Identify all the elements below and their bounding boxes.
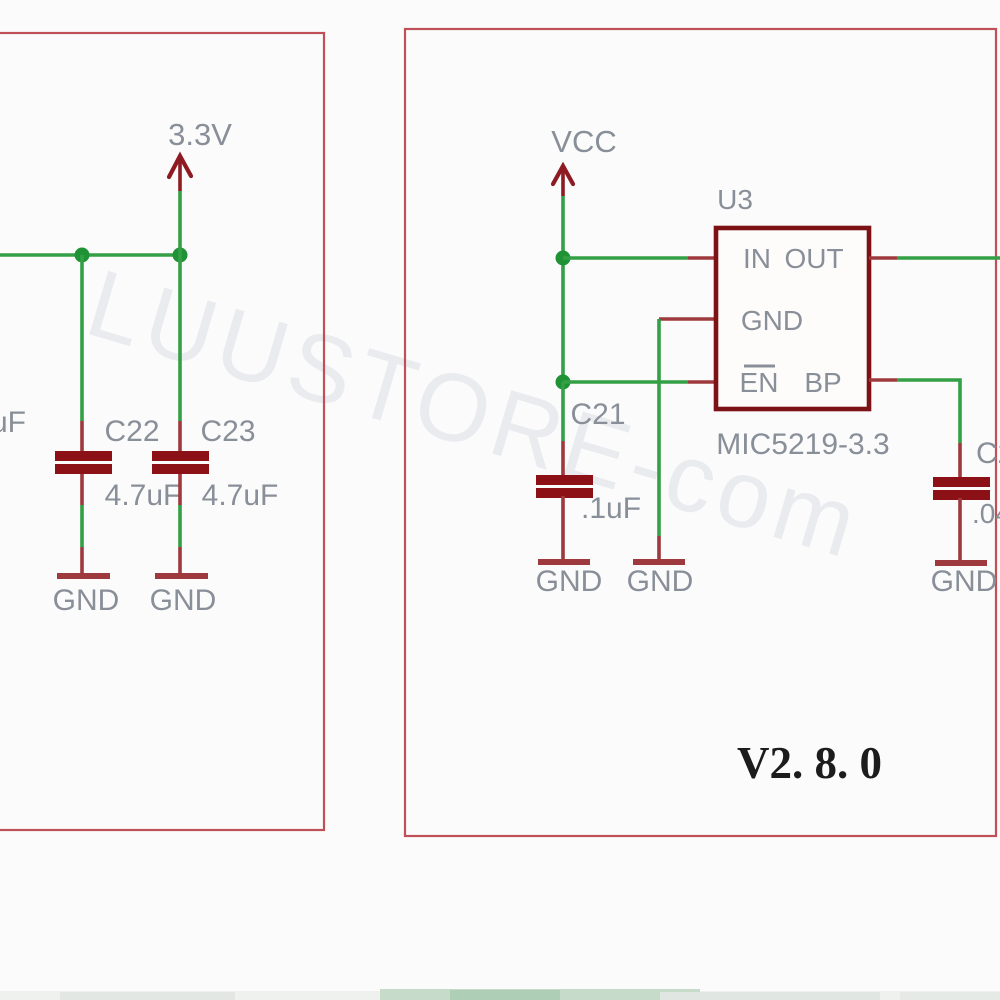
wire OUT pin <box>869 256 1000 260</box>
svg-text:OUT: OUT <box>784 243 843 274</box>
svg-text:VCC: VCC <box>551 124 616 159</box>
svg-text:GND: GND <box>53 584 120 617</box>
svg-text:C21: C21 <box>570 398 625 431</box>
value label uF fragment at left edge <box>0 406 26 439</box>
svg-text:V2. 8. 0: V2. 8. 0 <box>737 737 882 788</box>
wire IN pin <box>563 256 716 260</box>
svg-text:GND: GND <box>931 565 998 598</box>
node junction at IN <box>556 251 571 266</box>
node junction at EN <box>556 375 571 390</box>
capacitor C23 <box>152 255 278 573</box>
capacitor C22 <box>55 255 181 573</box>
power symbol VCC <box>551 124 616 196</box>
op-amp U3 regulator MIC5219 <box>716 184 890 461</box>
svg-text:GND: GND <box>150 584 217 617</box>
svg-text:GND: GND <box>536 565 603 598</box>
ground GND of U3 <box>627 559 694 598</box>
svg-text:GND: GND <box>627 565 694 598</box>
node junction at C22 <box>75 248 90 263</box>
version label V2.8.0 <box>737 737 882 788</box>
wire BP pin <box>869 380 960 443</box>
ground GND under C21 <box>536 559 603 598</box>
svg-text:4.7uF: 4.7uF <box>202 479 279 512</box>
svg-text:MIC5219-3.3: MIC5219-3.3 <box>716 428 889 461</box>
svg-text:C2: C2 <box>976 437 1000 470</box>
svg-text:.047uF: .047uF <box>972 498 1000 529</box>
svg-text:uF: uF <box>0 406 26 439</box>
wire VCC riser <box>561 196 565 382</box>
power symbol 3.3V <box>168 117 232 255</box>
node junction at 3.3V riser <box>173 248 188 263</box>
capacitor C at BP (clipped) <box>933 437 1000 560</box>
svg-text:.1uF: .1uF <box>581 492 641 525</box>
ground GND under BP capacitor <box>931 560 998 598</box>
svg-text:C23: C23 <box>200 415 255 448</box>
capacitor C21 <box>536 382 641 559</box>
svg-text:EN: EN <box>740 367 779 398</box>
svg-text:4.7uF: 4.7uF <box>105 479 182 512</box>
svg-text:IN: IN <box>743 243 771 274</box>
svg-text:U3: U3 <box>717 184 753 215</box>
svg-text:BP: BP <box>804 367 841 398</box>
wire EN pin <box>563 380 716 384</box>
svg-text:GND: GND <box>741 305 803 336</box>
watermark <box>76 250 873 580</box>
svg-text:3.3V: 3.3V <box>168 117 232 152</box>
ground GND under C23 <box>150 573 217 617</box>
wire GND pin <box>659 319 716 560</box>
ground GND under C22 <box>53 573 120 617</box>
bottom product strip <box>0 989 1000 1000</box>
wire main horizontal net 3.3V <box>0 253 180 257</box>
svg-text:C22: C22 <box>104 415 159 448</box>
